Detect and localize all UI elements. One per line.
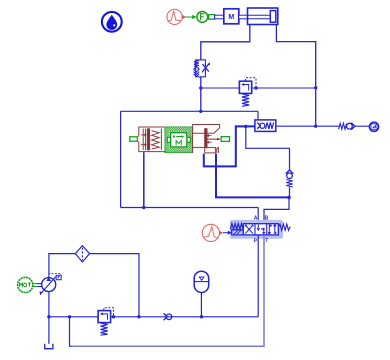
directional valve 4-3 [230,224,290,235]
node pump outlet [47,315,50,318]
hydraulic cylinder [248,8,278,25]
loop left wire [120,111,122,207]
svg-text:M: M [228,14,234,21]
signal source valve command [202,224,223,241]
variable displacement pump [40,274,62,296]
wire check to tank port [355,125,369,127]
spring loaded check valve right [339,123,355,130]
node return tap [68,315,71,318]
tank port plug [369,122,378,131]
spool position arrows [207,134,221,144]
spool mass block M [167,133,190,147]
node at relief branch [199,86,202,89]
node relief to right riser [314,86,317,89]
wire check valve to B junction [289,187,291,197]
filter [75,246,89,262]
servovalve right port [221,137,229,142]
wire valve T port return path [72,235,264,346]
svg-text:B: B [265,215,269,221]
signal wire to force sensor [186,15,197,19]
node B junction [287,196,291,200]
wire cylinder rod-side port to bypass component [201,25,250,60]
node accumulator tap [200,315,203,318]
wire B junction to valve B port [264,197,289,223]
servovalve subsystem left port [130,137,138,141]
check valve supply line [164,313,172,320]
pilot sense dashed line [246,78,256,88]
tank [45,344,53,349]
servovalve right housing [193,125,220,153]
system relief valve [98,308,113,336]
node relief pilot tap [112,315,115,318]
node riser to compensator line [314,125,317,128]
wire loop bottom to valve A [257,208,259,224]
signal wire to valve solenoid [223,231,232,235]
wire bypass component to loop [200,77,202,112]
pilot relief valve top [239,81,251,106]
svg-text:A: A [254,215,258,221]
valve port labels [254,215,269,244]
force sensor F [197,12,208,23]
wire servovalve return port to B junction [216,154,289,198]
relief output wire [252,87,316,89]
wire pump suction [48,292,50,344]
rod mass to cylinder [239,15,248,19]
selection highlight directional valve [230,220,283,239]
force port [209,15,215,20]
mass M [224,9,239,24]
wire tap to check valve [246,126,290,169]
signal source force input [167,9,186,24]
node loop top [199,110,202,113]
wire pump to filter [49,254,75,278]
accumulator [194,271,209,317]
servovalve left housing [139,127,166,152]
pressure compensator valve [255,120,276,131]
wire valve P port to supply line [257,235,259,317]
node loop bottom [142,206,145,209]
rod sensor to mass [215,15,224,19]
svg-text:T: T [265,238,268,244]
servovalve spool feedback arrows [141,133,147,146]
loop top wire [121,110,258,112]
check valve with variable orifice bypass [194,60,211,77]
wire to pilot relief valve [201,87,240,89]
supply line [49,316,258,318]
wire servovalve supply port to compensator [204,126,255,166]
loop bottom wire [121,207,259,209]
wire cylinder head-side port down right side [276,25,315,127]
compensator output wire [276,125,339,127]
electric motor MOT [18,277,43,292]
check valve vertical [286,170,294,187]
fluid properties icon [102,12,122,32]
wire loop to compensator top [257,111,259,120]
svg-text:P: P [254,238,258,244]
wire servovalve left port down [143,152,145,207]
node filter line drop [137,315,140,318]
hatched spool guide frame [165,127,193,153]
node compensator inlet tap [244,125,247,128]
node pilot tap [254,86,257,89]
wire filter to supply line [90,254,139,317]
